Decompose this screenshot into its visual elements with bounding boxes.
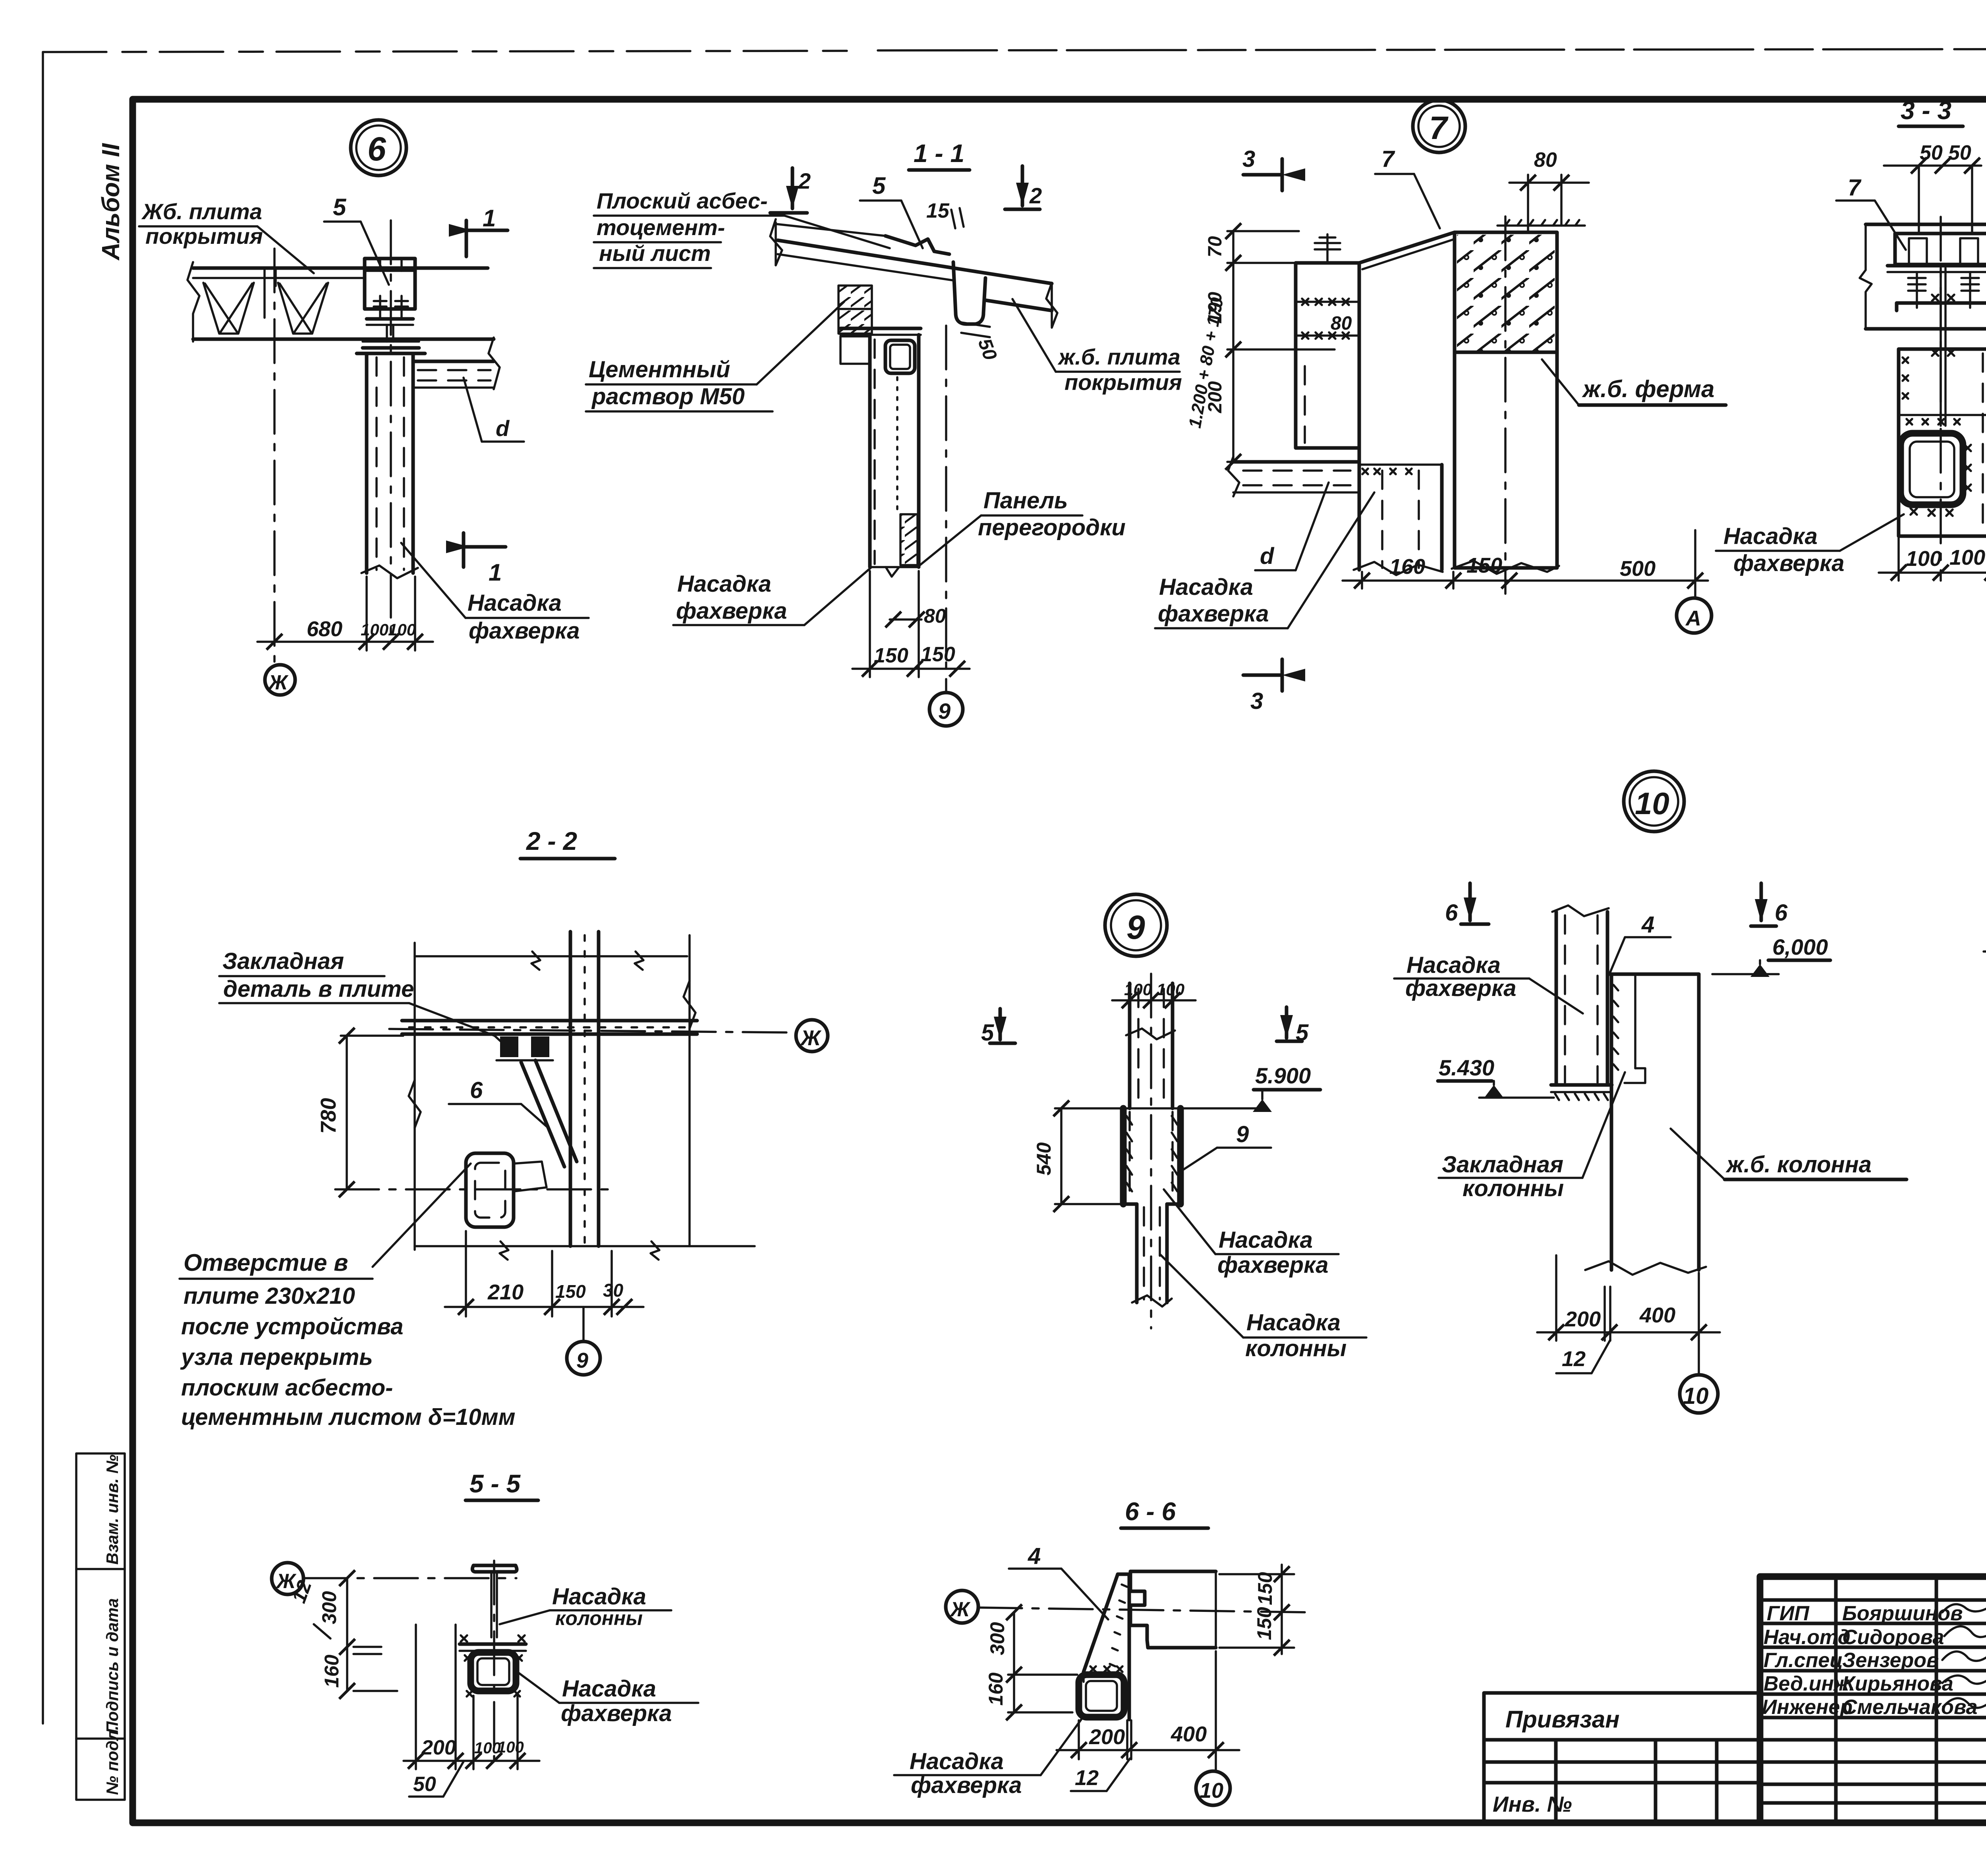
left dim chain	[346, 1578, 348, 1691]
svg-text:50: 50	[1948, 141, 1971, 164]
bolts	[374, 296, 408, 318]
left margin stamp column	[76, 1453, 125, 1800]
svg-text:9: 9	[938, 699, 950, 724]
svg-text:ный лист: ный лист	[599, 241, 711, 266]
bottom dims 200 100 100	[404, 1760, 539, 1762]
bolt on bracket top	[1315, 234, 1340, 263]
svg-text:6: 6	[1445, 900, 1458, 926]
embedded part squares	[500, 1036, 518, 1057]
svg-text:12: 12	[1562, 1347, 1586, 1371]
node circle 10	[1196, 1771, 1230, 1805]
svg-text:цементным листом δ=10мм: цементным листом δ=10мм	[181, 1404, 515, 1430]
bottom dims 100 100	[1879, 571, 1986, 574]
svg-text:после устройства: после устройства	[181, 1314, 404, 1339]
embedded plate in column	[1634, 976, 1636, 1068]
detail 9 marker circle	[1105, 894, 1167, 956]
bolts below	[1908, 272, 1979, 308]
concrete hatch top	[1457, 235, 1555, 352]
svg-text:6 - 6: 6 - 6	[1125, 1497, 1176, 1526]
bottom dims 210 150 30	[445, 1306, 643, 1308]
svg-text:5: 5	[333, 194, 347, 220]
svg-text:Привязан: Привязан	[1505, 1706, 1619, 1733]
svg-text:5 - 5: 5 - 5	[469, 1469, 521, 1498]
svg-text:Насадка: Насадка	[1219, 1227, 1313, 1253]
bracket box	[1296, 263, 1359, 448]
svg-text:7: 7	[1848, 175, 1862, 201]
svg-text:Ж: Ж	[949, 1598, 971, 1621]
svg-text:100: 100	[1949, 546, 1985, 569]
svg-text:100: 100	[474, 1739, 501, 1757]
svg-text:9: 9	[1126, 909, 1145, 946]
svg-text:10: 10	[1683, 1383, 1709, 1409]
bottom dims 200 400	[1057, 1749, 1239, 1751]
left dims 300 160	[1013, 1612, 1015, 1712]
connection plate	[460, 1642, 526, 1646]
svg-text:10: 10	[1200, 1779, 1223, 1803]
svg-text:Взам. инв. №: Взам. инв. №	[103, 1455, 122, 1565]
dim line 680 100 100	[257, 641, 433, 643]
svg-text:фахверка: фахверка	[469, 618, 580, 644]
svg-text:3: 3	[1250, 688, 1263, 714]
ferma outline	[1866, 223, 1986, 226]
fitting at diagonal end	[514, 1162, 547, 1191]
svg-text:1: 1	[489, 559, 502, 586]
top box	[1895, 234, 1986, 264]
svg-text:Инженер: Инженер	[1762, 1696, 1853, 1719]
square tube	[471, 1652, 516, 1691]
svg-text:6,000: 6,000	[1772, 934, 1828, 959]
plan top edge	[415, 955, 687, 957]
svg-text:3: 3	[1242, 146, 1255, 172]
right slab	[1130, 1570, 1216, 1573]
svg-text:Ж: Ж	[267, 671, 289, 694]
svg-text:Закладная: Закладная	[1442, 1152, 1563, 1177]
svg-text:5.900: 5.900	[1255, 1063, 1311, 1088]
svg-text:100: 100	[1906, 547, 1942, 571]
zipper weld line	[896, 377, 898, 512]
left dim chain	[1232, 231, 1234, 463]
plan bottom edge	[415, 1245, 755, 1247]
svg-text:№ подл.: № подл.	[103, 1725, 122, 1795]
svg-text:плоским асбесто-: плоским асбесто-	[181, 1375, 393, 1401]
node circle 9	[567, 1341, 600, 1375]
svg-text:Инв. №: Инв. №	[1493, 1792, 1572, 1816]
svg-text:200: 200	[1089, 1725, 1125, 1749]
svg-text:30: 30	[603, 1280, 624, 1301]
left break	[770, 219, 782, 265]
beam d right dashed	[415, 360, 494, 363]
dim 150 150	[852, 668, 970, 670]
svg-text:Зензеров: Зензеров	[1842, 1649, 1939, 1672]
svg-text:9: 9	[576, 1349, 588, 1372]
dim 100 100 top	[1112, 999, 1196, 1002]
svg-text:d: d	[1260, 543, 1275, 569]
column bottom break	[361, 566, 418, 578]
axis Ж circle	[265, 665, 295, 695]
svg-text:d: d	[496, 416, 510, 441]
svg-text:Сидорова: Сидорова	[1842, 1626, 1944, 1649]
svg-text:Ж: Ж	[800, 1026, 822, 1050]
plate	[1887, 264, 1986, 268]
roof slab	[193, 266, 488, 270]
svg-text:540: 540	[1033, 1142, 1055, 1175]
svg-text:500: 500	[1620, 557, 1656, 581]
svg-text:780: 780	[317, 1098, 340, 1134]
svg-text:колонны: колонны	[1462, 1175, 1564, 1201]
svg-text:680: 680	[307, 617, 342, 641]
bottom dim line	[1343, 579, 1708, 582]
horizontal slab wall	[402, 1019, 697, 1023]
svg-text:плите 230х210: плите 230х210	[184, 1283, 355, 1309]
svg-text:фахверка: фахверка	[561, 1700, 672, 1726]
bottom breaks	[1354, 562, 1443, 575]
dim 780	[346, 1036, 348, 1189]
svg-text:5.430: 5.430	[1439, 1055, 1494, 1080]
square tube	[1901, 433, 1963, 505]
svg-text:узла перекрыть: узла перекрыть	[180, 1344, 373, 1370]
svg-text:колонны: колонны	[1245, 1336, 1347, 1361]
embedded column head	[365, 259, 415, 309]
svg-text:12: 12	[1075, 1766, 1099, 1790]
asbestos sheet	[776, 224, 885, 236]
svg-text:150: 150	[1254, 1572, 1276, 1605]
svg-text:Насадка: Насадка	[562, 1676, 656, 1702]
svg-text:300: 300	[318, 1591, 340, 1624]
svg-text:80: 80	[924, 605, 946, 627]
svg-text:Плоский асбес-: Плоский асбес-	[597, 188, 768, 213]
svg-text:160: 160	[1389, 555, 1425, 579]
node circle 10	[1680, 1375, 1718, 1413]
svg-text:фахверка: фахверка	[1733, 550, 1844, 576]
centerlines	[389, 1029, 790, 1033]
svg-text:200: 200	[1205, 381, 1226, 413]
svg-text:Жб. плита: Жб. плита	[141, 199, 262, 224]
horizontal beam d	[1233, 460, 1359, 464]
section mark 1 top	[466, 220, 508, 257]
svg-text:6: 6	[470, 1077, 483, 1103]
svg-text:фахверка: фахверка	[676, 598, 787, 624]
жб колонна	[1611, 973, 1699, 976]
fachwerk post	[1555, 912, 1558, 1085]
svg-text:1: 1	[483, 205, 496, 232]
svg-text:Цементный: Цементный	[589, 357, 730, 382]
svg-text:4: 4	[1028, 1543, 1041, 1569]
svg-text:150: 150	[555, 1281, 586, 1302]
axis line + circle 9	[945, 326, 947, 692]
staff table	[1760, 1577, 1986, 1823]
svg-text:ж.б. ферма: ж.б. ферма	[1582, 376, 1714, 402]
I-beam насадка колонны	[472, 1565, 517, 1572]
section mark 1 bottom	[464, 533, 506, 567]
centerlines	[493, 1561, 495, 1761]
svg-text:5: 5	[872, 172, 886, 199]
svg-text:перегородки: перегородки	[978, 515, 1126, 540]
right column (ferma)	[1455, 232, 1557, 568]
svg-text:2: 2	[1029, 183, 1042, 208]
svg-text:деталь в плите: деталь в плите	[223, 976, 414, 1002]
node circle A	[1677, 598, 1712, 633]
svg-text:100: 100	[497, 1739, 524, 1756]
svg-text:2 - 2: 2 - 2	[526, 827, 577, 855]
svg-text:Насадка: Насадка	[468, 590, 562, 616]
hole centerline	[335, 1188, 612, 1191]
slab rib right	[278, 283, 328, 334]
bottom dims	[1537, 1331, 1720, 1334]
svg-text:Насадка: Насадка	[910, 1749, 1004, 1774]
post upper	[1128, 983, 1132, 1108]
right dim 150 150	[1281, 1565, 1283, 1654]
svg-text:150: 150	[1466, 554, 1502, 577]
column shaft	[868, 335, 872, 567]
svg-text:Гл.спец: Гл.спец	[1764, 1649, 1843, 1672]
svg-text:70: 70	[1205, 236, 1226, 257]
svg-text:190: 190	[1205, 292, 1226, 324]
svg-text:150: 150	[1253, 1607, 1275, 1640]
svg-text:10: 10	[1635, 786, 1669, 821]
column bottom	[870, 566, 919, 568]
svg-text:200: 200	[1565, 1307, 1601, 1331]
svg-text:6: 6	[1775, 900, 1788, 926]
top plate with ticks	[1497, 224, 1585, 227]
svg-text:Нач.отд: Нач.отд	[1764, 1626, 1851, 1649]
svg-text:4: 4	[1641, 912, 1654, 938]
partition panel hatched	[900, 514, 918, 565]
hole dashed	[466, 1153, 514, 1227]
svg-text:Подпись и дата: Подпись и дата	[103, 1598, 122, 1733]
svg-text:160: 160	[985, 1672, 1007, 1706]
svg-text:100: 100	[361, 620, 388, 639]
svg-text:100: 100	[1157, 980, 1184, 999]
svg-text:покрытия: покрытия	[1064, 370, 1182, 395]
slab rib left	[203, 283, 254, 334]
detail 7 marker circle	[1413, 100, 1465, 152]
cap plate	[357, 352, 425, 355]
svg-text:400: 400	[1171, 1722, 1207, 1746]
detail 10 marker circle	[1624, 771, 1684, 832]
svg-text:200: 200	[421, 1736, 456, 1759]
svg-text:210: 210	[487, 1280, 524, 1304]
axis Ж circle	[946, 1590, 978, 1623]
svg-text:Отверстие в: Отверстие в	[184, 1249, 348, 1276]
svg-text:ГИП: ГИП	[1767, 1602, 1810, 1625]
svg-text:15: 15	[926, 199, 950, 222]
web	[1940, 268, 1942, 426]
mortar hatched blocks	[838, 286, 872, 334]
column bottom break	[1585, 1261, 1706, 1275]
axis Ж circle	[272, 1563, 303, 1594]
square tube section	[885, 340, 915, 373]
svg-text:150: 150	[921, 643, 955, 666]
column top plate	[840, 327, 921, 330]
svg-text:7: 7	[1381, 146, 1395, 172]
sleeve насадка	[1120, 1108, 1127, 1204]
svg-text:ж.б. плита: ж.б. плита	[1057, 344, 1180, 369]
sloped sheet to column	[1359, 232, 1455, 263]
centerline	[1150, 974, 1152, 1328]
roof slab chords	[778, 240, 1052, 284]
T flange	[1897, 303, 1986, 311]
svg-text:Закладная: Закладная	[222, 948, 344, 974]
column centerline	[1504, 216, 1507, 594]
view arrow 2 right	[1005, 166, 1040, 209]
svg-text:6: 6	[367, 130, 386, 168]
fachwerk post	[1358, 448, 1361, 570]
left bracket	[840, 336, 870, 364]
weld x row	[1302, 299, 1349, 339]
svg-text:50: 50	[413, 1773, 436, 1796]
vertical wall	[569, 932, 572, 1246]
svg-text:ж.б. колонна: ж.б. колонна	[1725, 1152, 1872, 1177]
svg-text:А: А	[1685, 606, 1701, 630]
svg-text:Бояршинов: Бояршинов	[1842, 1602, 1963, 1625]
centerline	[1940, 217, 1942, 581]
section mark 3 bottom	[1243, 659, 1282, 691]
svg-text:80: 80	[1331, 313, 1352, 334]
dim 80	[890, 618, 922, 621]
svg-text:раствор М50: раствор М50	[591, 384, 745, 409]
svg-text:2: 2	[798, 168, 811, 193]
svg-text:3 - 3: 3 - 3	[1901, 96, 1951, 125]
signatures squiggles	[1942, 1601, 1986, 1708]
svg-text:Альбом II: Альбом II	[97, 143, 125, 261]
weld x marks above tube	[1090, 1666, 1122, 1672]
svg-text:Панель: Панель	[983, 488, 1068, 513]
svg-text:Насадка: Насадка	[1159, 574, 1253, 600]
svg-text:Вед.инж.: Вед.инж.	[1764, 1672, 1855, 1695]
svg-text:7: 7	[1429, 110, 1449, 146]
diagonal member	[521, 1062, 564, 1167]
svg-text:Насадка: Насадка	[1246, 1310, 1341, 1336]
plan boundary left/right	[413, 943, 416, 1250]
svg-text:фахверка: фахверка	[1158, 601, 1269, 627]
detail 6 marker circle	[351, 120, 406, 176]
column shaft	[365, 353, 369, 573]
svg-text:Насадка: Насадка	[1723, 523, 1818, 549]
svg-text:Насадка: Насадка	[1406, 952, 1501, 978]
svg-text:Насадка: Насадка	[677, 571, 771, 597]
column	[1899, 349, 1986, 536]
svg-text:100: 100	[388, 620, 416, 639]
post lower	[1135, 1204, 1139, 1303]
panel joint	[263, 268, 266, 318]
svg-text:9: 9	[1236, 1121, 1249, 1147]
svg-text:Кирьянова: Кирьянова	[1842, 1672, 1953, 1695]
axis Ж centerline	[273, 249, 276, 662]
square tube	[1079, 1675, 1124, 1717]
svg-text:Насадка: Насадка	[552, 1584, 646, 1610]
svg-text:тоцемент-: тоцемент-	[597, 215, 725, 240]
svg-text:400: 400	[1639, 1303, 1675, 1327]
view arrow 2 left	[770, 168, 807, 213]
svg-text:160: 160	[321, 1654, 343, 1688]
svg-text:300: 300	[986, 1622, 1008, 1655]
right slab rib	[953, 262, 985, 324]
gusset plate triangle	[1118, 1573, 1130, 1576]
svg-text:150: 150	[874, 644, 908, 667]
svg-text:80: 80	[1534, 149, 1557, 172]
svg-text:фахверка: фахверка	[1217, 1252, 1328, 1278]
dim 540	[1060, 1108, 1063, 1204]
svg-text:1 - 1: 1 - 1	[914, 139, 964, 168]
attach table (Привязан)	[1484, 1693, 1760, 1823]
I beam section	[367, 317, 413, 321]
